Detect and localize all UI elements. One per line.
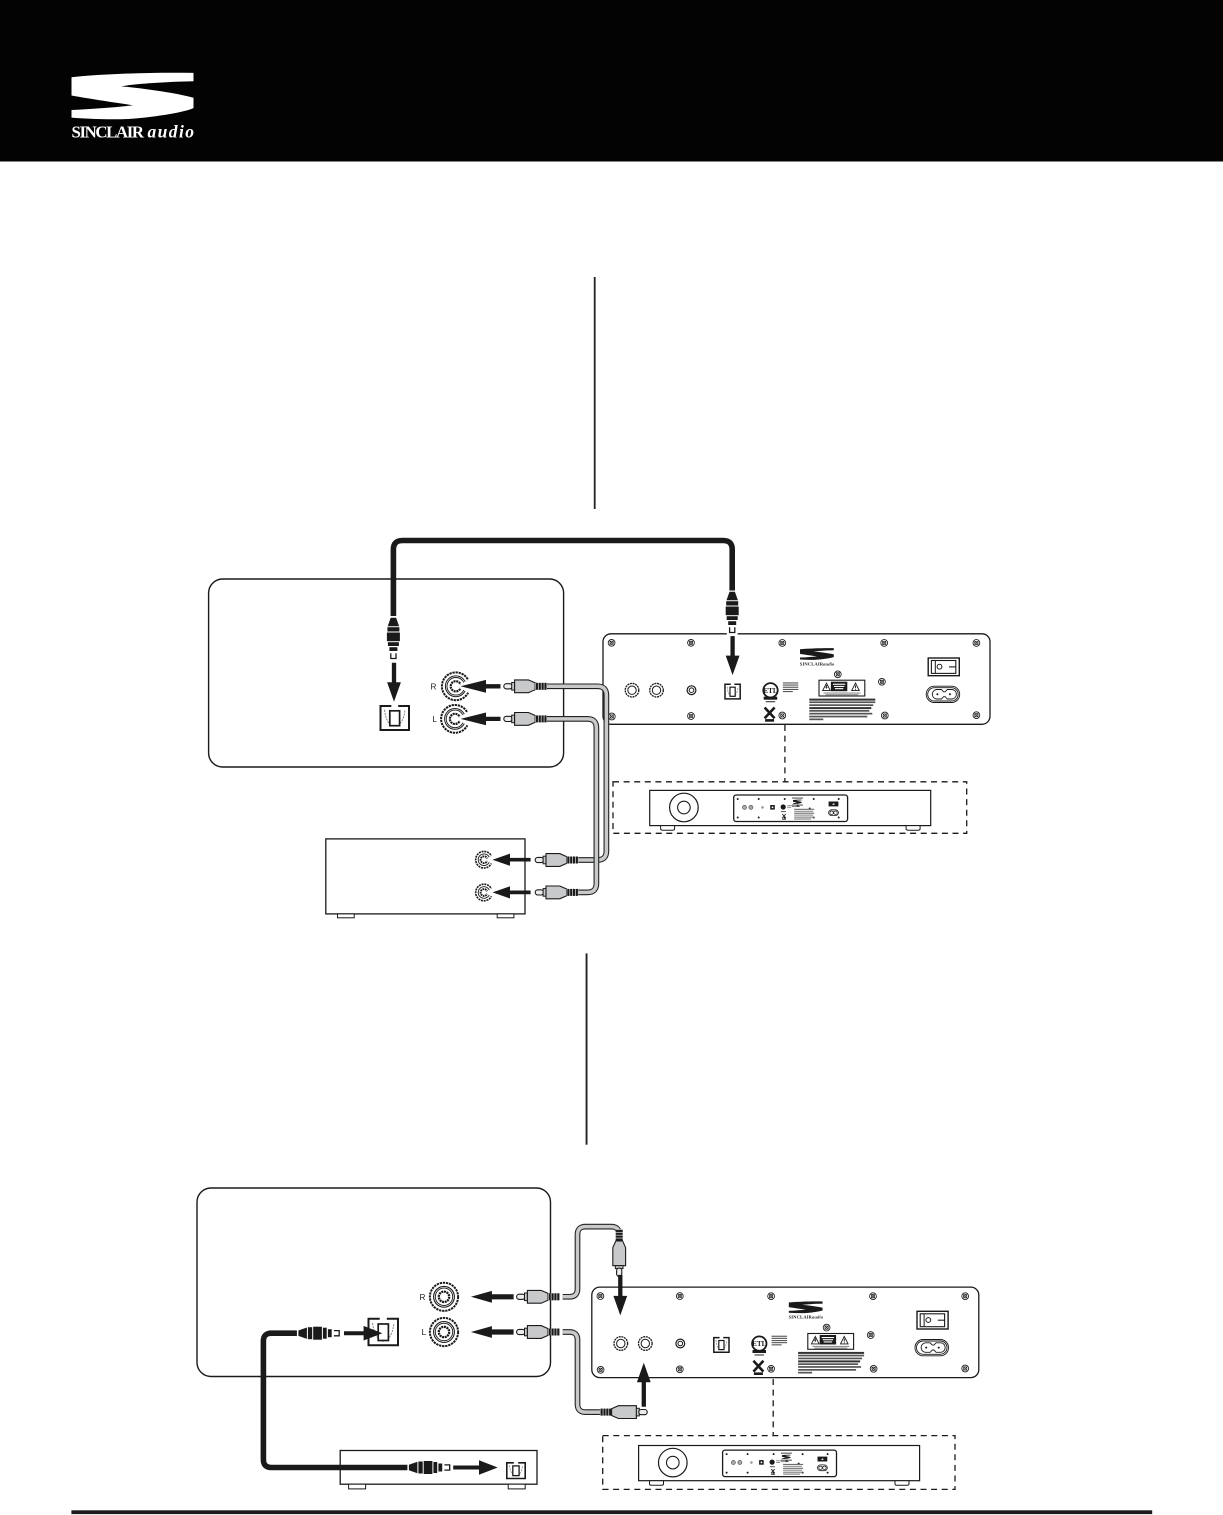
arrow into TV jack L (diagram 2) xyxy=(471,1326,514,1338)
TV rear panel (diagram 1) xyxy=(209,579,564,767)
RCA plug into TV jack R (diagram 1) xyxy=(504,680,547,693)
arrow into TV jack R (diagram 1) xyxy=(461,680,501,693)
dashed link soundbar to subwoofer (diagram 2) xyxy=(772,1379,774,1436)
ETL conformity text xyxy=(783,682,799,692)
svg-text:SINCLAIRaudio: SINCLAIRaudio xyxy=(800,661,835,666)
WEEE crossed-out bin symbol xyxy=(765,708,775,722)
DVD player (diagram 2) xyxy=(340,1451,537,1489)
TV audio out jack L (diagram 1) xyxy=(432,705,471,733)
AC power inlet xyxy=(926,686,960,702)
svg-text:audio: audio xyxy=(148,121,195,141)
arrow into DVD jack R (diagram 1) xyxy=(493,854,531,866)
DVD audio out jack L (diagram 1) xyxy=(476,884,494,901)
optical input port xyxy=(714,1338,729,1353)
subwoofer cabinet xyxy=(639,1446,920,1481)
dashed link soundbar to subwoofer (diagram 1) xyxy=(784,725,786,782)
RCA plug into TV jack R (diagram 2) xyxy=(517,1290,560,1303)
ETL conformity text xyxy=(772,1336,788,1346)
RCA plug into soundbar R input (diagram 2) xyxy=(600,1406,647,1419)
subwoofer connection panel xyxy=(723,1450,837,1477)
TV audio out jack R (diagram 1) xyxy=(431,672,472,700)
subwoofer feet xyxy=(661,826,921,831)
arrow into TV optical port (diagram 2) xyxy=(344,1326,382,1341)
optical input port xyxy=(725,684,740,699)
svg-text:ETL: ETL xyxy=(763,687,777,695)
RCA input jack L xyxy=(625,683,639,697)
optical plug at TV (diagram 1) xyxy=(387,618,400,659)
arrow into soundbar L input (diagram 2) xyxy=(613,1275,627,1316)
TV audio out jack L (diagram 2) xyxy=(422,1318,458,1346)
svg-text:L: L xyxy=(432,715,437,724)
subwoofer connection panel xyxy=(734,795,848,822)
svg-text:SINCLAIR: SINCLAIR xyxy=(72,122,145,141)
Sinclair logo on panel xyxy=(789,1301,824,1319)
header black banner xyxy=(0,0,1223,162)
RCA plug into DVD jack R (diagram 1) xyxy=(535,854,578,867)
DVD audio out jack R (diagram 1) xyxy=(476,851,494,868)
power switch xyxy=(928,658,959,676)
svg-text:L: L xyxy=(422,1328,427,1337)
warning text block xyxy=(798,1352,864,1374)
arrow into TV jack L (diagram 1) xyxy=(461,713,501,726)
DVD player (diagram 1) xyxy=(326,839,525,918)
wireless subwoofer dashed outline (diagram 1) xyxy=(613,782,967,834)
RCA cable TV L to DVD (diagram 1) xyxy=(547,719,597,893)
soundbar rear panel xyxy=(603,634,990,725)
TV optical port (diagram 2) xyxy=(369,1319,399,1346)
RCA input jack R xyxy=(639,1337,653,1351)
ETL certification mark xyxy=(752,1336,767,1355)
warning text block xyxy=(809,699,875,721)
wireless subwoofer dashed outline (diagram 2) xyxy=(603,1436,955,1490)
power switch xyxy=(917,1311,948,1329)
RCA plug into TV jack L (diagram 2) xyxy=(517,1326,560,1339)
aux mini jack xyxy=(676,1339,685,1348)
svg-text:SINCLAIRaudio: SINCLAIRaudio xyxy=(789,1315,824,1320)
DVD optical port (diagram 2) xyxy=(507,1463,525,1479)
ETL certification mark xyxy=(763,683,778,702)
arrow into DVD jack L (diagram 1) xyxy=(493,886,531,898)
woofer port xyxy=(670,793,699,822)
arrow into DVD optical port (diagram 2) xyxy=(453,1460,498,1475)
Sinclair logo on panel xyxy=(800,648,835,666)
panel screws xyxy=(608,639,980,720)
aux mini jack xyxy=(687,686,696,695)
section divider line (top) xyxy=(594,277,596,509)
TV rear panel (diagram 2) xyxy=(197,1188,551,1377)
optical plug at DVD (diagram 2) xyxy=(409,1461,450,1474)
panel screws xyxy=(597,1293,969,1374)
RCA cable TV R to DVD (diagram 1) xyxy=(547,686,607,860)
footer rule xyxy=(71,1510,1152,1514)
optical plug at TV (diagram 2) xyxy=(298,1327,339,1340)
optical plug at soundbar (diagram 1) xyxy=(726,592,739,636)
RCA cable TV L to soundbar R input (diagram 2) xyxy=(563,1332,601,1412)
optical cable (TV to DVD, diagram 2) xyxy=(263,1333,407,1467)
AC power inlet xyxy=(915,1340,949,1356)
caution label xyxy=(808,1334,854,1350)
section divider line (middle) xyxy=(586,953,588,1144)
WEEE crossed-out bin symbol xyxy=(753,1361,763,1375)
arrow into TV optical port xyxy=(387,663,401,702)
svg-text:R: R xyxy=(431,682,437,691)
subwoofer feet xyxy=(650,1481,910,1486)
svg-text:R: R xyxy=(419,1293,425,1302)
woofer port xyxy=(659,1448,688,1477)
arrow into soundbar R input (diagram 2) xyxy=(637,1363,651,1407)
arrow into soundbar optical port xyxy=(726,636,740,675)
arrow into TV jack R (diagram 2) xyxy=(471,1291,514,1303)
TV audio out jack R (diagram 2) xyxy=(419,1283,458,1311)
caution label xyxy=(819,680,865,696)
svg-text:ETL: ETL xyxy=(752,1340,766,1348)
RCA cable TV R to soundbar L input (diagram 2) xyxy=(563,1227,620,1297)
optical cable (TV to soundbar) xyxy=(393,541,732,617)
soundbar rear panel xyxy=(592,1287,979,1378)
TV optical port (diagram 1) xyxy=(381,706,410,730)
Sinclair Audio logo xyxy=(72,73,195,142)
RCA plug into soundbar L input (diagram 2) xyxy=(613,1229,626,1276)
RCA input jack L xyxy=(614,1337,628,1351)
RCA plug into TV jack L (diagram 1) xyxy=(504,713,547,726)
RCA plug into DVD jack L (diagram 1) xyxy=(535,886,578,899)
RCA input jack R xyxy=(650,683,664,697)
subwoofer cabinet xyxy=(650,790,931,825)
